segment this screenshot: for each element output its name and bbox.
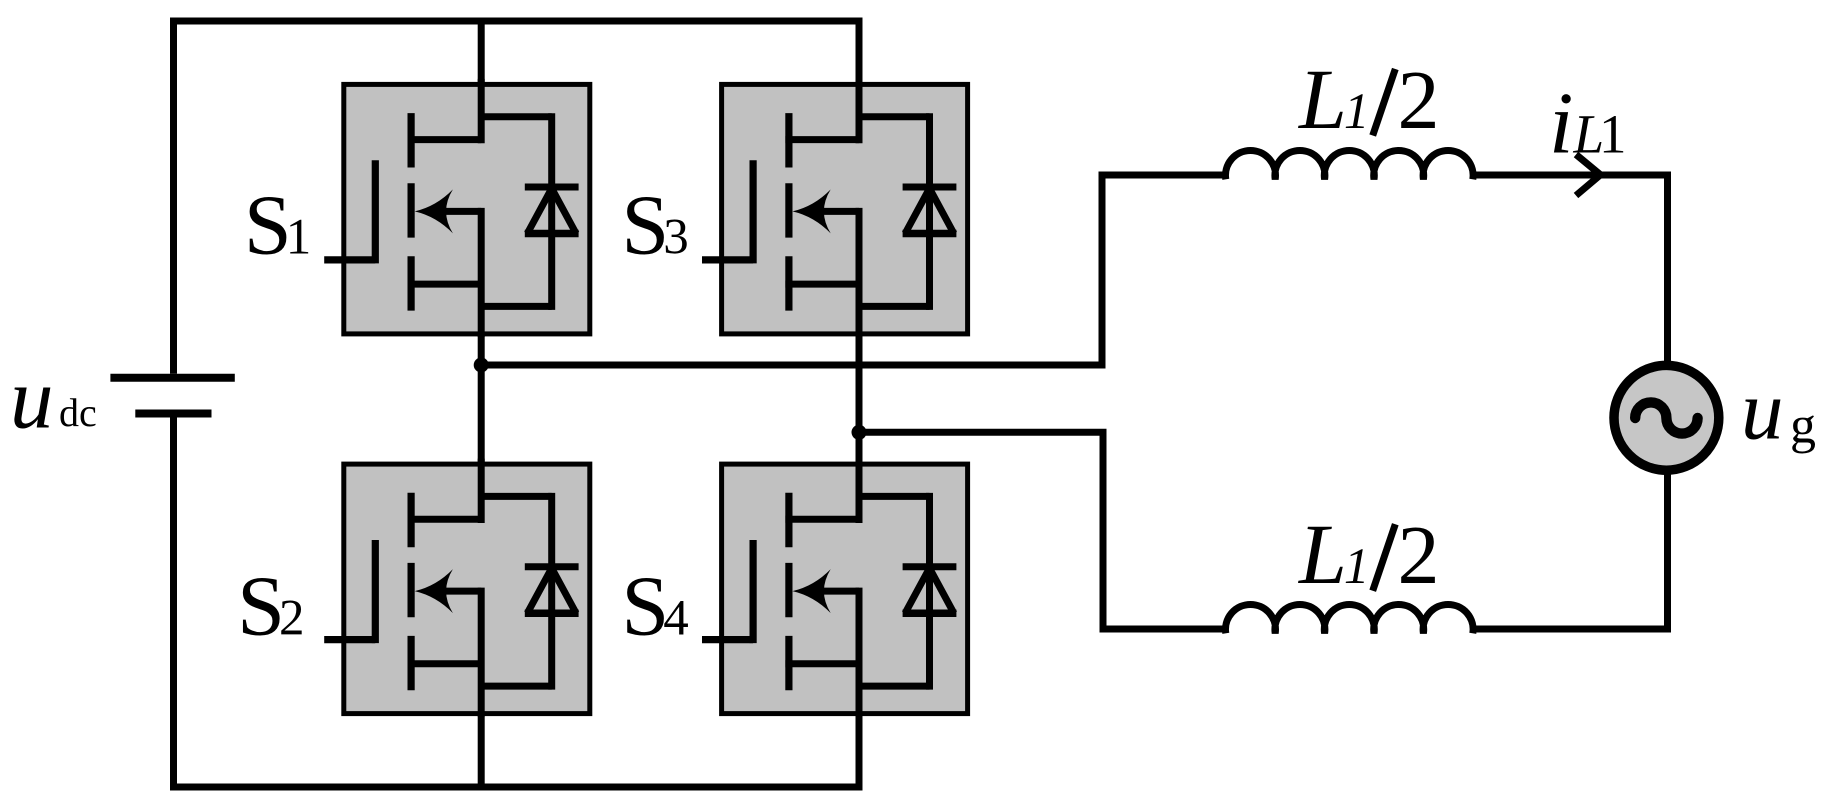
wire: S1 drain from top rail: [478, 18, 485, 89]
inductor L1/2 top: [1226, 150, 1474, 179]
svg-text:u: u: [10, 350, 54, 447]
transistor S2 switch module: [324, 459, 590, 717]
battery u_dc top plate: [110, 374, 234, 382]
battery u_dc bottom plate: [135, 410, 211, 418]
svg-text:L1: L1: [1297, 51, 1369, 147]
svg-text:L1: L1: [1297, 506, 1369, 602]
svg-text:2: 2: [1398, 509, 1440, 602]
inductor L1/2 bottom: [1226, 604, 1474, 633]
wire: node A to top inductor: [481, 175, 1226, 365]
svg-text:S1: S1: [244, 177, 311, 273]
transistor S3 switch module: [702, 79, 968, 337]
wire: bottom inductor to AC source: [1473, 465, 1668, 629]
svg-text:S3: S3: [621, 177, 688, 273]
svg-text:dc: dc: [59, 390, 97, 435]
svg-text:S2: S2: [237, 558, 304, 654]
wire: S1 source to S2 drain through node A: [478, 330, 485, 468]
wire: S2 source to bottom rail: [478, 710, 485, 791]
svg-text:2: 2: [1398, 54, 1440, 147]
svg-text:g: g: [1790, 398, 1816, 455]
svg-text:S4: S4: [621, 558, 688, 654]
transistor S4 switch module: [702, 459, 968, 717]
transistor S1 switch module: [324, 79, 590, 337]
wire: left rail upper + top rail + S3 drain drop: [174, 21, 860, 374]
wire: S3 source to S4 drain through node B: [856, 330, 863, 468]
node A junction dot: [474, 358, 489, 373]
wire: left rail lower + bottom rail + S4 source riser: [174, 414, 860, 788]
current arrow i_L1: [1576, 155, 1601, 196]
svg-text:iL1: iL1: [1549, 76, 1627, 173]
node B junction dot: [852, 425, 867, 440]
AC source sine wave: [1635, 402, 1697, 433]
wire: top inductor to AC source: [1473, 175, 1668, 370]
svg-text:u: u: [1741, 364, 1784, 458]
AC source u_g circle: [1614, 365, 1719, 470]
wire: node B to bottom inductor: [859, 432, 1226, 629]
